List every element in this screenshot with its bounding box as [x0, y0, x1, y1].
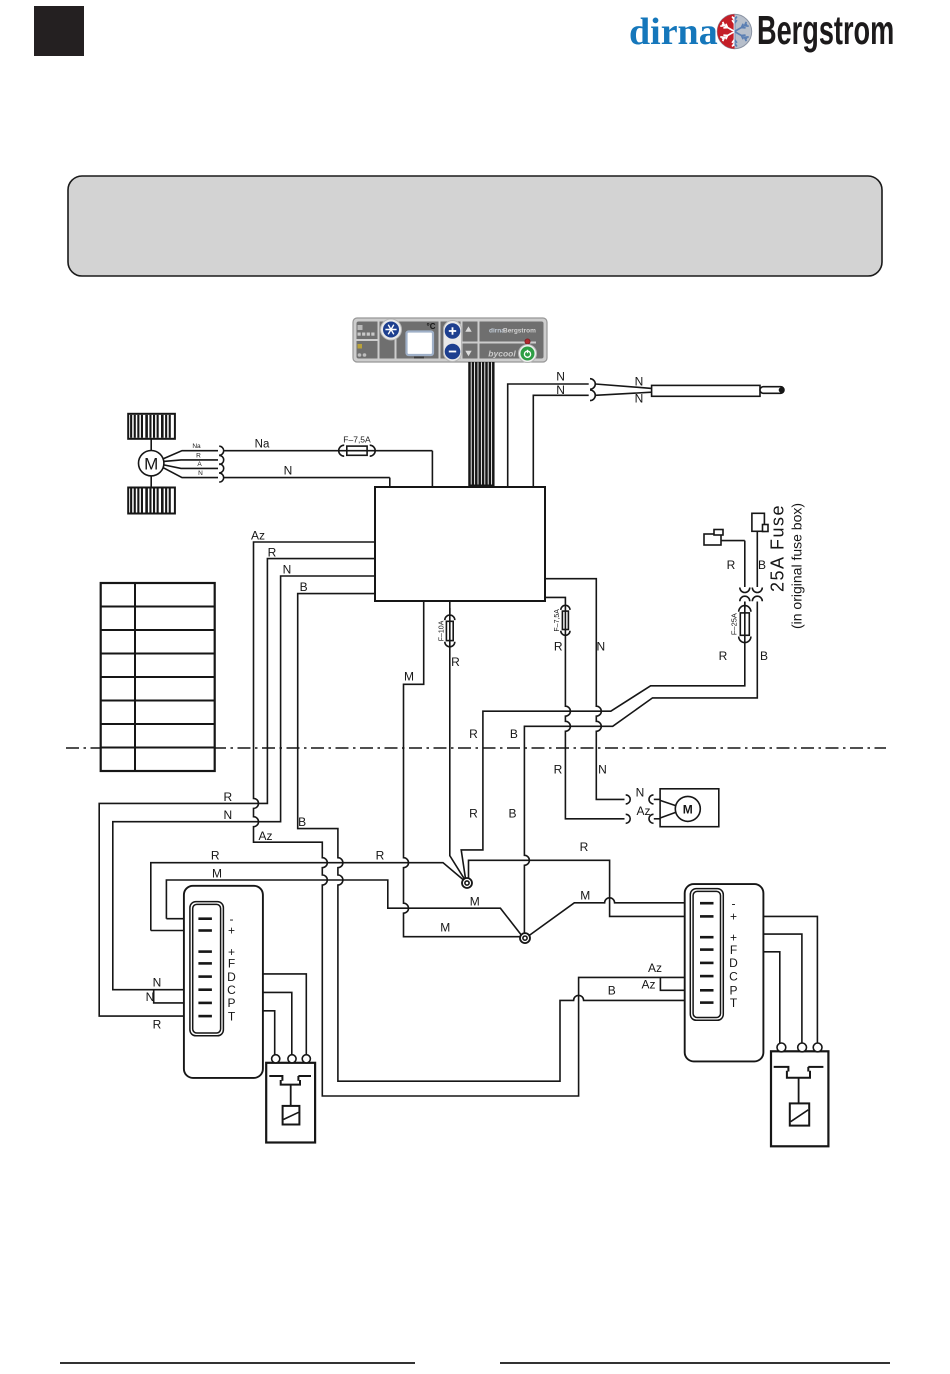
- svg-text:R: R: [376, 849, 385, 863]
- svg-text:F–25A: F–25A: [730, 613, 739, 635]
- svg-text:B: B: [760, 649, 768, 663]
- svg-text:R: R: [469, 806, 478, 820]
- svg-text:F–10A: F–10A: [438, 620, 445, 641]
- svg-text:B: B: [510, 727, 518, 741]
- svg-text:N: N: [598, 763, 607, 777]
- svg-text:bycool: bycool: [488, 349, 516, 359]
- svg-text:N: N: [223, 808, 232, 822]
- svg-text:N: N: [283, 563, 292, 577]
- svg-text:C: C: [729, 969, 738, 983]
- svg-text:M: M: [212, 867, 222, 881]
- svg-text:Na: Na: [255, 439, 270, 451]
- svg-text:R: R: [727, 558, 736, 572]
- svg-text:T: T: [228, 1009, 236, 1023]
- svg-text:R: R: [719, 649, 728, 663]
- svg-text:F–7,5A: F–7,5A: [554, 609, 561, 632]
- svg-text:R: R: [554, 763, 563, 777]
- svg-text:Bergstrom: Bergstrom: [503, 328, 536, 335]
- svg-text:R: R: [196, 452, 201, 459]
- svg-text:Az: Az: [636, 804, 650, 818]
- svg-text:R: R: [211, 849, 220, 863]
- svg-text:+: +: [730, 910, 737, 924]
- svg-text:R: R: [554, 640, 563, 654]
- svg-text:P: P: [227, 996, 235, 1010]
- svg-text:Bergstrom: Bergstrom: [757, 9, 894, 54]
- svg-text:-: -: [732, 896, 736, 910]
- svg-text:Az: Az: [641, 977, 655, 991]
- svg-text:B: B: [608, 983, 616, 997]
- svg-text:N: N: [556, 369, 565, 383]
- svg-text:R: R: [223, 790, 232, 804]
- svg-text:T: T: [730, 996, 738, 1010]
- svg-text:M: M: [404, 670, 414, 684]
- svg-text:M: M: [683, 802, 693, 816]
- svg-text:N: N: [284, 463, 293, 477]
- svg-text:N: N: [146, 990, 155, 1004]
- svg-text:N: N: [198, 470, 203, 477]
- svg-text:D: D: [729, 956, 738, 970]
- svg-text:(in original fuse box): (in original fuse box): [789, 503, 805, 629]
- svg-text:Az: Az: [258, 829, 272, 843]
- svg-text:D: D: [227, 970, 236, 984]
- svg-text:M: M: [144, 454, 158, 473]
- svg-text:Az: Az: [648, 961, 662, 975]
- svg-text:N: N: [153, 976, 162, 990]
- svg-text:A: A: [197, 461, 202, 468]
- svg-text:R: R: [268, 545, 277, 559]
- svg-text:25A Fuse: 25A Fuse: [768, 504, 788, 592]
- svg-text:B: B: [508, 806, 516, 820]
- svg-text:N: N: [636, 785, 645, 799]
- svg-text:B: B: [758, 558, 766, 572]
- svg-text:R: R: [153, 1017, 162, 1031]
- svg-text:F: F: [228, 957, 235, 971]
- svg-text:B: B: [300, 580, 308, 594]
- svg-text:F: F: [730, 943, 737, 957]
- svg-text:N: N: [556, 383, 565, 397]
- svg-text:+: +: [228, 924, 235, 938]
- svg-text:°C: °C: [427, 322, 436, 331]
- svg-text:Na: Na: [192, 443, 201, 450]
- svg-text:N: N: [596, 640, 605, 654]
- svg-text:M: M: [470, 894, 480, 908]
- svg-text:N: N: [635, 392, 644, 406]
- svg-text:R: R: [580, 840, 589, 854]
- svg-text:C: C: [227, 983, 236, 997]
- svg-text:M: M: [440, 920, 450, 934]
- svg-text:dirna: dirna: [629, 11, 718, 53]
- svg-text:R: R: [451, 655, 460, 669]
- svg-text:Az: Az: [251, 529, 265, 543]
- svg-text:B: B: [298, 815, 306, 829]
- svg-text:R: R: [469, 727, 478, 741]
- svg-text:N: N: [635, 374, 644, 388]
- svg-text:F–7,5A: F–7,5A: [343, 435, 371, 445]
- svg-text:M: M: [580, 889, 590, 903]
